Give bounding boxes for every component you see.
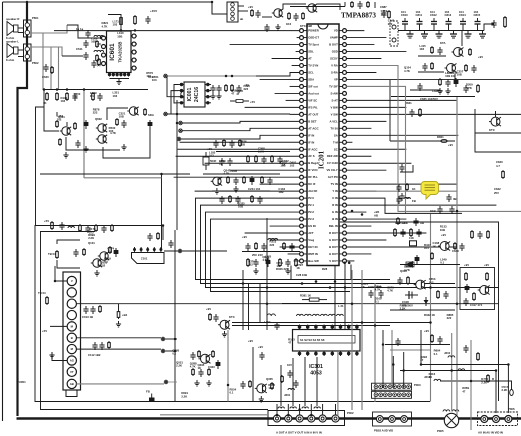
capacitor C209 bbox=[269, 177, 271, 180]
resistor R204 bbox=[255, 155, 257, 157]
junction bbox=[450, 369, 453, 372]
pin IC201 L31 bbox=[303, 239, 307, 241]
wire busL3 bbox=[206, 212, 499, 287]
resistor R206 bbox=[227, 176, 229, 178]
capacitor C813 bbox=[448, 24, 450, 31]
junction bbox=[402, 369, 405, 372]
svg-text:103: 103 bbox=[152, 78, 157, 82]
pin IC201 R28 bbox=[339, 218, 343, 220]
svg-text:AF S: AF S bbox=[308, 154, 315, 158]
resistor R341 bbox=[209, 313, 211, 315]
capacitor C102 bbox=[87, 225, 89, 228]
capacitor C803 bbox=[266, 24, 268, 27]
pin IC301 top 1 bbox=[299, 325, 301, 330]
wire blm v228 bbox=[227, 330, 229, 402]
jumper J31 bbox=[305, 314, 312, 316]
IC201 body bbox=[307, 24, 339, 266]
wire lr2 bbox=[390, 309, 455, 311]
capacitor C602 bbox=[147, 16, 149, 19]
capacitor C612 bbox=[93, 60, 95, 63]
pin IC201 L5 bbox=[303, 58, 307, 60]
svg-text:4.7K: 4.7K bbox=[387, 289, 393, 293]
pin IC201 L3 bbox=[303, 44, 307, 46]
pin IC201 L10 bbox=[303, 92, 307, 94]
wire busL2 bbox=[201, 205, 456, 283]
wire IC201 R19 bbox=[346, 155, 371, 157]
wire gv375 bbox=[374, 283, 376, 402]
wire +15V supply top bbox=[54, 30, 300, 32]
wire top border bbox=[3, 2, 228, 14]
capacitor C832 bbox=[465, 85, 467, 88]
pin IC301 top 7 bbox=[348, 325, 350, 330]
capacitor C824 bbox=[447, 79, 449, 82]
pin IC201 L16 bbox=[303, 134, 307, 136]
junction bbox=[120, 29, 122, 31]
svg-text:222: 222 bbox=[447, 316, 452, 320]
wire if2 bbox=[57, 240, 80, 244]
gnd bbox=[447, 88, 449, 91]
wire tuner p7 bbox=[76, 348, 161, 350]
wire h96 bbox=[391, 96, 475, 98]
transistor Q604 bbox=[129, 107, 137, 115]
pin IC201 L22 bbox=[303, 176, 307, 178]
wire IC201 L30 bbox=[245, 232, 300, 234]
junction bbox=[120, 29, 123, 32]
wire P302 stub 4 bbox=[310, 404, 312, 415]
pin IC201 L2 bbox=[303, 37, 307, 39]
pin IC001 7 bbox=[205, 90, 211, 92]
pin SAW 4 bbox=[153, 247, 155, 253]
svg-text:IFS PIL: IFS PIL bbox=[308, 105, 318, 109]
pin IC601 right 2 bbox=[131, 43, 137, 45]
pin IC201 L6 bbox=[303, 65, 307, 67]
pin IC601 bottom 6 bbox=[128, 73, 130, 77]
svg-text:4.7K: 4.7K bbox=[375, 287, 381, 291]
svg-text:C IN: C IN bbox=[332, 196, 338, 200]
wire q805a bbox=[495, 111, 497, 117]
wire h141 bbox=[390, 140, 455, 142]
resistor R330 bbox=[281, 375, 283, 377]
component FB302 bbox=[149, 398, 155, 402]
resistor R381 bbox=[309, 298, 319, 301]
pin IC601 bottom 2 bbox=[112, 73, 114, 77]
svg-text:1n 1a: 1n 1a bbox=[76, 27, 84, 31]
resistor R304 bbox=[279, 258, 281, 260]
wire conn left bbox=[160, 414, 268, 416]
wire tuner p10 bbox=[76, 383, 164, 385]
svg-text:P305: P305 bbox=[437, 429, 444, 433]
wire audio L bbox=[31, 47, 62, 56]
svg-text:VT: VT bbox=[70, 370, 74, 374]
capacitor C841 bbox=[398, 184, 400, 187]
svg-text:1K: 1K bbox=[276, 264, 280, 268]
wire top h6 bbox=[290, 6, 345, 8]
wire IC201 R3 bbox=[346, 44, 374, 46]
connector P601A bbox=[24, 16, 39, 37]
svg-text:+9V: +9V bbox=[424, 329, 429, 333]
wire v35 upper bbox=[36, 107, 45, 226]
wire gray v84 bbox=[83, 90, 85, 178]
resistor R324 bbox=[198, 350, 200, 352]
speaker SP1 bbox=[6, 17, 19, 40]
wire IC201 R15 bbox=[346, 127, 371, 129]
wire IC201 L33 bbox=[288, 253, 300, 255]
pin IC601 right 3 bbox=[131, 51, 137, 53]
capacitor C824 below bbox=[467, 31, 469, 35]
pin P306 3 bbox=[505, 416, 512, 423]
wire audio gray v2 bbox=[50, 47, 52, 90]
resistor R315 bbox=[394, 228, 396, 230]
svg-text:103: 103 bbox=[209, 153, 214, 157]
svg-text:TB 04: TB 04 bbox=[48, 252, 56, 256]
jumper J312 bbox=[434, 379, 441, 381]
svg-text:Bus SW: Bus SW bbox=[308, 259, 319, 263]
wire left thin border bbox=[2, 2, 4, 421]
capacitor C212 bbox=[259, 196, 261, 199]
wire stair213 bbox=[346, 198, 462, 213]
pin IC201 R9 bbox=[339, 85, 343, 87]
wire eeprom l3 bbox=[167, 76, 178, 97]
wire IC201 R14 bbox=[346, 120, 386, 122]
resistor R823 bbox=[431, 62, 433, 64]
svg-text:J310: J310 bbox=[444, 351, 451, 355]
capacitor C848 bbox=[415, 218, 417, 221]
connector P801 bbox=[227, 2, 238, 22]
svg-text:104: 104 bbox=[445, 10, 450, 14]
pin IC301 top 6 bbox=[340, 325, 342, 330]
gnd bbox=[255, 268, 257, 271]
svg-text:0.1: 0.1 bbox=[230, 391, 234, 395]
pin IC601 bottom 1 bbox=[109, 73, 111, 77]
svg-text:AB: AB bbox=[374, 214, 378, 218]
pin IC301 bot 3 bbox=[315, 351, 317, 356]
svg-text:47: 47 bbox=[288, 341, 292, 345]
wire gbus215 bbox=[346, 86, 405, 213]
svg-text:AB: AB bbox=[420, 221, 424, 225]
jumper J30 bbox=[297, 314, 304, 316]
svg-text:104: 104 bbox=[401, 10, 406, 14]
wire IC201 L2 bbox=[297, 37, 300, 39]
svg-text:503F: 503F bbox=[210, 159, 217, 163]
wire IC201 L34 bbox=[294, 260, 300, 262]
svg-text:1K: 1K bbox=[74, 95, 78, 99]
wire stair1 bbox=[183, 121, 300, 123]
wire box right bbox=[475, 133, 521, 152]
resistor R305 bbox=[295, 258, 297, 260]
resistor R103 bbox=[95, 224, 97, 226]
svg-text:104: 104 bbox=[416, 10, 421, 14]
SAW filter Z101 bbox=[132, 253, 165, 264]
wire P302 stub 2 bbox=[287, 404, 289, 415]
wire IC201 R16 bbox=[346, 134, 458, 136]
svg-text:POWER: POWER bbox=[308, 29, 319, 33]
svg-text:TKA2025B: TKA2025B bbox=[118, 42, 123, 63]
capacitor C004 bbox=[238, 85, 240, 88]
svg-text:222: 222 bbox=[388, 22, 393, 26]
capacitor C603 bbox=[87, 30, 89, 33]
capacitor C801 bbox=[257, 10, 259, 13]
wire IC201 R20 bbox=[346, 162, 411, 164]
resistor R208 bbox=[261, 176, 263, 178]
svg-text:24C16: 24C16 bbox=[194, 87, 200, 102]
pin IC001 3 bbox=[178, 96, 184, 98]
capacitor C201 bbox=[215, 140, 217, 143]
speaker SP2 bbox=[6, 40, 19, 63]
resistor R805 bbox=[367, 1, 369, 3]
pin IC201 R24 bbox=[339, 190, 343, 192]
wire audio R bbox=[31, 25, 67, 33]
pin IC201 L30 bbox=[303, 232, 307, 234]
capacitor C202 bbox=[231, 140, 233, 143]
wire IC201 R28 bbox=[346, 218, 406, 220]
svg-text:DC IF: DC IF bbox=[308, 182, 316, 186]
svg-text:CV CHO: CV CHO bbox=[327, 161, 339, 165]
wire v496 bbox=[495, 370, 497, 413]
svg-text:ab: ab bbox=[240, 17, 244, 21]
pin P306 2 bbox=[493, 416, 500, 423]
wire IC201 R32 bbox=[346, 246, 456, 248]
svg-text:4.7K: 4.7K bbox=[262, 258, 268, 262]
pin IC201 R22 bbox=[339, 176, 343, 178]
pin IC301 bot 2 bbox=[307, 351, 309, 356]
wire P302 up3 bbox=[304, 357, 306, 406]
capacitor C847 bbox=[401, 164, 403, 167]
svg-text:SIF out: SIF out bbox=[308, 84, 318, 88]
svg-text:1KB: 1KB bbox=[430, 209, 436, 213]
capacitor C301 bbox=[247, 243, 249, 246]
wire IC201 L4 bbox=[296, 51, 300, 53]
svg-text:0.1: 0.1 bbox=[172, 352, 176, 356]
svg-text:P602: P602 bbox=[32, 61, 39, 65]
pin P306 1 bbox=[481, 416, 488, 423]
resistor R831 bbox=[419, 108, 421, 110]
svg-text:IC201: IC201 bbox=[318, 150, 326, 169]
svg-text:+5V: +5V bbox=[250, 100, 255, 104]
svg-text:OSD: OSD bbox=[332, 50, 338, 54]
pin IC301 bot 1 bbox=[299, 351, 301, 356]
pin tuner 4 bbox=[67, 310, 76, 319]
svg-text:1K2: 1K2 bbox=[286, 22, 292, 26]
pin IC301 bot 8 bbox=[356, 351, 358, 356]
gnd bbox=[212, 93, 214, 96]
resistor R333 bbox=[431, 334, 433, 336]
wire IC201 L11 bbox=[286, 99, 300, 101]
svg-text:Z101: Z101 bbox=[141, 257, 148, 261]
pin IC201 L28 bbox=[303, 218, 307, 220]
wire lr1 bbox=[432, 245, 440, 247]
junction bbox=[266, 286, 269, 289]
svg-text:4.7: 4.7 bbox=[496, 164, 500, 168]
wire q802 out bbox=[317, 4, 340, 10]
junction bbox=[456, 302, 459, 305]
svg-text:25V: 25V bbox=[494, 191, 499, 195]
jumper bottom 2 bbox=[302, 407, 308, 409]
svg-text:118: 118 bbox=[409, 236, 414, 240]
wire tm1 bbox=[344, 2, 346, 7]
capacitor C842 bbox=[398, 196, 400, 199]
wire hdr v393 bbox=[392, 356, 394, 388]
wire gbus211 bbox=[346, 66, 521, 212]
resistor R804 bbox=[351, 1, 353, 3]
wire bus y89 bbox=[44, 89, 148, 91]
wire v177 bbox=[176, 100, 178, 230]
junction bbox=[176, 113, 179, 116]
pin IC201 L12 bbox=[303, 106, 307, 108]
capacitor C322 bbox=[217, 360, 219, 362]
svg-text:L 31: L 31 bbox=[338, 304, 344, 308]
wire IC201 R18 bbox=[346, 148, 406, 150]
wire stair2 bbox=[183, 128, 300, 130]
svg-text:2.2K: 2.2K bbox=[181, 394, 187, 398]
transistor Q305 bbox=[257, 384, 266, 393]
capacitor C811 bbox=[419, 24, 421, 31]
capacitor C210 bbox=[221, 196, 223, 199]
wire IC201 R21 bbox=[346, 169, 386, 171]
resistor R604 bbox=[98, 58, 100, 60]
wire q805b bbox=[460, 112, 491, 114]
wire IC201 R8 bbox=[346, 78, 521, 80]
pin IC201 L17 bbox=[303, 141, 307, 143]
gnd bbox=[439, 88, 441, 91]
capacitor C303 bbox=[291, 243, 293, 246]
wire v212 bbox=[211, 2, 213, 14]
svg-text:C848: C848 bbox=[452, 249, 459, 253]
pin IC301 top 5 bbox=[331, 325, 333, 330]
gnd bbox=[277, 24, 279, 27]
junction bbox=[231, 75, 234, 78]
svg-text:C835 104/50V: C835 104/50V bbox=[420, 97, 438, 101]
pin IC201 R13 bbox=[339, 113, 343, 115]
wire IC201 L20 bbox=[205, 162, 300, 164]
junction bbox=[310, 414, 313, 417]
wire bus y76 bbox=[166, 75, 256, 77]
junction bbox=[351, 210, 354, 213]
resistor R806 bbox=[388, 10, 390, 12]
capacitor C381 bbox=[276, 322, 278, 325]
tuner tab bbox=[66, 390, 77, 397]
gnd bbox=[224, 331, 226, 334]
pin SAW 1 bbox=[134, 247, 136, 253]
svg-text:C620: C620 bbox=[42, 75, 49, 79]
junction bbox=[227, 384, 230, 387]
junction bbox=[470, 380, 473, 383]
pin IC201 R29 bbox=[339, 225, 343, 227]
wire e2 bbox=[44, 90, 59, 132]
capacitor C112 bbox=[101, 342, 103, 345]
resistor R842 bbox=[397, 217, 399, 219]
coil L301 bbox=[268, 238, 278, 240]
wire bus y114 bbox=[166, 113, 290, 115]
svg-text:H OUT: H OUT bbox=[329, 252, 338, 256]
svg-text:102: 102 bbox=[107, 249, 112, 253]
gnd bbox=[208, 380, 210, 383]
svg-text:4.7K: 4.7K bbox=[102, 24, 108, 28]
svg-text:103: 103 bbox=[112, 23, 117, 27]
junction bbox=[429, 321, 432, 324]
pin tuner 1 bbox=[67, 276, 76, 285]
wire above ic301 b bbox=[232, 325, 390, 327]
pin P302 5 bbox=[319, 415, 326, 422]
pin IC201 L15 bbox=[303, 127, 307, 129]
svg-text:B Regd: B Regd bbox=[308, 161, 318, 165]
coil L602 bbox=[94, 50, 104, 52]
pin tuner 6 bbox=[67, 333, 76, 342]
pin SAW 3 bbox=[147, 247, 149, 253]
pin P302 4 bbox=[308, 415, 315, 422]
svg-text:V OUT: V OUT bbox=[329, 259, 338, 263]
svg-text:1K: 1K bbox=[429, 375, 433, 379]
pin IC001 5 bbox=[205, 102, 211, 104]
svg-text:+9V: +9V bbox=[464, 263, 469, 267]
resistor R105 bbox=[83, 248, 85, 250]
pin IC201 L13 bbox=[303, 113, 307, 115]
svg-text:B DET: B DET bbox=[308, 119, 317, 123]
wire IC201 R17 bbox=[346, 141, 352, 143]
wire fb1 bbox=[67, 25, 101, 38]
pin IC201 R17 bbox=[339, 141, 343, 143]
capacitor C618 bbox=[77, 140, 79, 143]
resistor R612 bbox=[56, 92, 58, 94]
resistor R605 bbox=[96, 54, 98, 56]
wire IC201 R34 bbox=[346, 260, 354, 262]
svg-text:Q602: Q602 bbox=[95, 117, 102, 121]
resistor R314 bbox=[487, 230, 489, 232]
capacitor C821 below bbox=[424, 31, 426, 35]
pin IC301 bot 4 bbox=[323, 351, 325, 356]
svg-text:P2.3: P2.3 bbox=[308, 217, 314, 221]
svg-text:FB: FB bbox=[412, 199, 416, 203]
capacitor C823 bbox=[473, 65, 475, 68]
svg-text:1K: 1K bbox=[296, 266, 300, 270]
pin IC201 R7 bbox=[339, 71, 343, 73]
pin IC201 R25 bbox=[339, 197, 343, 199]
pin IC201 R32 bbox=[339, 246, 343, 248]
gnd bbox=[85, 146, 87, 149]
pin P302 6 bbox=[332, 415, 339, 422]
capacitor C846 bbox=[451, 206, 453, 209]
resistor R202 bbox=[239, 139, 241, 141]
wire gray192 bbox=[346, 190, 457, 192]
svg-text:J301: J301 bbox=[284, 393, 291, 397]
wire IC201 R24 bbox=[346, 190, 376, 192]
svg-text:Q101: Q101 bbox=[88, 241, 95, 245]
capacitor C814 bbox=[462, 24, 464, 31]
wire q801 base bbox=[262, 16, 272, 18]
svg-text:2.2K: 2.2K bbox=[481, 380, 487, 384]
svg-text:AT AGC: AT AGC bbox=[308, 126, 318, 130]
svg-text:SDA: SDA bbox=[308, 77, 314, 81]
coil L302 bbox=[288, 388, 294, 390]
svg-text:103: 103 bbox=[268, 386, 273, 390]
pin IC201 L23 bbox=[303, 183, 307, 185]
pin IC201 L26 bbox=[303, 204, 307, 206]
svg-text:S-AT: S-AT bbox=[331, 98, 338, 102]
wire v248 bbox=[248, 284, 250, 331]
junction bbox=[225, 75, 227, 77]
resistor R316 bbox=[410, 228, 412, 230]
pin IC201 R2 bbox=[339, 37, 343, 39]
resistor R616 bbox=[74, 122, 76, 124]
pin IC201 R11 bbox=[339, 99, 343, 101]
pin IC201 L4 bbox=[303, 51, 307, 53]
wire v421b bbox=[420, 330, 422, 364]
svg-text:103: 103 bbox=[113, 94, 118, 98]
wire tr3 bbox=[454, 74, 456, 82]
jumper J34 bbox=[329, 314, 336, 316]
svg-text:S-RA: S-RA bbox=[331, 70, 338, 74]
wire gv362 bbox=[361, 270, 363, 410]
pin IC201 R14 bbox=[339, 120, 343, 122]
